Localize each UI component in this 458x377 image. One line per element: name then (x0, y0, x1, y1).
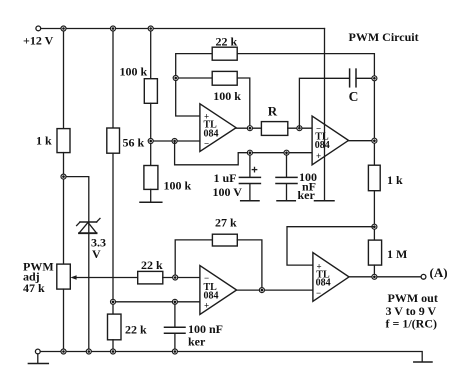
wire R to U2 inverting input (288, 127, 312, 129)
svg-text:084: 084 (315, 140, 330, 151)
ground (right) (414, 361, 432, 363)
resistor 1 M (368, 240, 381, 265)
label 100 nF ker (middle) (298, 170, 318, 202)
wire link minus node to reference node (175, 141, 250, 165)
node (A) terminal (421, 274, 426, 279)
wire 27k left leg from 22k junction (175, 240, 212, 278)
svg-text:(A): (A) (430, 265, 448, 280)
wire bottom rail (40, 352, 422, 362)
resistor 22 k (top feedback) (212, 47, 237, 60)
node ground terminal (left) (35, 349, 40, 354)
node junction minus wire (172, 139, 177, 144)
svg-text:PWM Circuit: PWM Circuit (349, 30, 419, 44)
wire 100k branch upper (150, 29, 152, 79)
svg-text:V: V (92, 247, 101, 261)
node junction top rail 56k (111, 26, 116, 31)
wire U1 output (236, 127, 261, 129)
op-amp U2 TL084 (top right) (312, 116, 348, 165)
resistor 27 k (212, 234, 237, 246)
resistor 1 k (left) (57, 129, 70, 153)
svg-text:100 V: 100 V (213, 185, 243, 199)
resistor 100 k (lower divider) (144, 166, 158, 190)
node junction bottom rail 22k (111, 349, 116, 354)
node junction U2 output (372, 138, 377, 143)
node junction U4 + node (372, 224, 377, 229)
wire U2 output (349, 140, 375, 142)
wire 22k to bottom rail (112, 340, 114, 352)
svg-text:22 k: 22 k (125, 323, 147, 337)
svg-text:22 k: 22 k (141, 258, 163, 272)
svg-text:1 k: 1 k (387, 173, 403, 187)
svg-text:56 k: 56 k (123, 136, 145, 150)
ground (left) (37, 354, 39, 363)
node junction bottom rail zener (86, 349, 91, 354)
svg-text:1 uF: 1 uF (214, 171, 237, 185)
resistor R (261, 122, 287, 136)
wire 22k top feedback left with corner to U1 + input (176, 54, 213, 116)
wire zener branch top (64, 177, 89, 234)
wire +12V drop over U2 to supply bar (324, 29, 326, 201)
resistor 56 k (107, 128, 120, 153)
node junction bottom 100nF (172, 299, 177, 304)
wire between 100k resistors (150, 103, 152, 165)
wire 100k feedback right to U1 output (237, 78, 250, 128)
svg-text:+: + (316, 151, 321, 161)
svg-text:+12 V: +12 V (23, 34, 54, 48)
wire 1M to output node (373, 265, 375, 277)
svg-text:100 k: 100 k (120, 64, 148, 78)
wire divider tap to U3 + input (113, 301, 200, 303)
wire 56k branch upper (112, 29, 114, 129)
node junction 100nF (284, 150, 289, 155)
wire zener to bottom rail (88, 234, 90, 352)
resistor 100 k (top feedback) (212, 71, 237, 85)
resistor 100 k (upper divider) (144, 79, 157, 104)
node junction bottom rail 1k/pot (61, 349, 66, 354)
svg-text:47 k: 47 k (23, 281, 45, 295)
svg-text:27 k: 27 k (215, 216, 237, 230)
svg-text:ker: ker (188, 335, 206, 349)
wire top +12V rail (41, 28, 325, 30)
svg-text:R: R (268, 104, 278, 119)
wire 56k down to divider tap (112, 153, 114, 314)
wire 27k right leg to U3 output (237, 240, 262, 290)
node junction 1uF (247, 150, 252, 155)
label 1 uF 100 V (213, 171, 243, 199)
wire 100k lower to supply bar (150, 189, 152, 202)
svg-text:100 k: 100 k (213, 89, 241, 103)
label 3.3 V (91, 236, 106, 262)
node junction top rail 100k (148, 26, 153, 31)
potentiometer PWM adj 47 k (57, 264, 71, 289)
node junction R right (297, 126, 302, 131)
capacitor 100 nF ker (bottom) (165, 304, 186, 352)
node junction U1 output (247, 126, 252, 131)
node junction 22k/27k (173, 275, 178, 280)
label 100 nF ker (bottom) (188, 322, 223, 349)
wire 1k right to 1M (373, 191, 375, 240)
node junction bottom rail 100nF (172, 349, 177, 354)
op-amp U4 TL084 (bottom right) (313, 253, 349, 302)
zener diode 3.3 V (77, 218, 100, 233)
capacitor 100 nF ker (middle) (276, 155, 297, 201)
svg-text:−: − (316, 288, 321, 298)
resistor 22 k (bottom vertical) (108, 314, 122, 340)
svg-text:100 k: 100 k (164, 179, 192, 193)
svg-text:22 k: 22 k (216, 35, 238, 49)
wire 22k top to right vertical (237, 54, 374, 166)
node +12V terminal (36, 26, 41, 31)
wire U4 positive feedback loop (287, 227, 374, 265)
node junction C right (372, 76, 377, 81)
wire U3 output (237, 289, 313, 291)
svg-text:1 k: 1 k (36, 134, 52, 148)
svg-text:+: + (204, 301, 209, 311)
wire pot to bottom rail (63, 289, 65, 351)
wire 100k feedback left (176, 77, 213, 79)
wire 22k to U3 inverting input (163, 277, 200, 279)
node junction below 1k (61, 174, 66, 179)
wiper arrow head (70, 275, 76, 280)
svg-text:1 M: 1 M (387, 247, 407, 261)
node junction divider tap (111, 299, 116, 304)
svg-text:C: C (349, 89, 359, 104)
svg-text:084: 084 (316, 278, 331, 289)
wire capacitor C left leg (299, 78, 349, 128)
wire capacitor C right leg (356, 77, 374, 79)
node junction top rail 1k (61, 26, 66, 31)
op-amp U1 TL084 (top left) (200, 104, 236, 152)
capacitor 1 uF 100 V (239, 155, 260, 201)
resistor 1 k (right) (368, 165, 380, 191)
svg-text:ker: ker (298, 188, 316, 202)
wire 1k branch upper (63, 29, 65, 129)
wire U1 inverting input (151, 140, 200, 142)
svg-text:−: − (204, 139, 209, 149)
wire reference node to U2 + input (250, 152, 312, 154)
node junction 100k divider tap (148, 139, 153, 144)
op-amp U3 TL084 (bottom left) (200, 266, 237, 315)
wire 1k to pot (63, 153, 65, 265)
svg-text:f = 1/(RC): f = 1/(RC) (386, 316, 438, 330)
wire pot wiper to 22k (74, 277, 138, 279)
node junction on + feedback (173, 76, 178, 81)
label PWM out block (386, 291, 438, 330)
capacitor C (350, 69, 356, 87)
label PWM adj 47 k (23, 260, 54, 295)
wire U4 output to (A) (349, 276, 421, 278)
resistor 22 k (bottom horizontal) (138, 271, 163, 284)
node junction U3 output (259, 288, 264, 293)
node junction output (372, 274, 377, 279)
